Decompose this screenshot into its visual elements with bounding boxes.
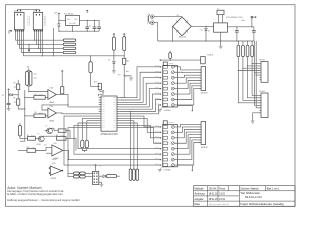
quartz capacitor C11 — [81, 140, 84, 148]
resistor R10 — [27, 149, 36, 153]
wire R2 to bus — [18, 105, 25, 109]
svg-text:U5 RL6: U5 RL6 — [259, 91, 265, 93]
bus line fuse F3 — [246, 45, 249, 57]
resistor R2 — [17, 95, 19, 99]
wire U1 to channel B1 — [119, 116, 159, 127]
wire to U5 pin 6 — [256, 75, 261, 108]
wire U1 to channel B2 — [119, 118, 159, 132]
opto channel B5 — [160, 148, 162, 149]
wire bus to U5 pin 1 — [252, 64, 261, 96]
opto channel B2 — [160, 132, 162, 133]
wire channel A3 to SV1 — [174, 75, 201, 78]
jumper J1 — [63, 39, 76, 41]
opto IC block A body — [163, 66, 178, 108]
connector X3 — [201, 57, 206, 64]
wire channel B5 to SV2 — [174, 135, 201, 149]
node via circle — [28, 44, 30, 49]
capacitor C10 — [18, 125, 21, 136]
opto channel A2 — [160, 72, 162, 73]
capacitor C4 — [89, 62, 92, 73]
svg-text:K2: K2 — [33, 11, 35, 13]
transistor T2 — [47, 128, 53, 134]
connector SV1 — [201, 67, 206, 91]
jumper J3 — [63, 47, 76, 49]
resistor R3 — [34, 96, 45, 100]
svg-text:R9: R9 — [35, 112, 37, 114]
long vertical node wire — [24, 90, 26, 116]
svg-text:+: + — [250, 29, 251, 31]
wire bus to U5 pin 3 — [243, 68, 261, 100]
svg-text:R8: R8 — [56, 135, 58, 137]
diode D7 — [99, 175, 103, 177]
resistor R6 — [123, 37, 126, 51]
wire U1 to channel A2 — [119, 72, 159, 100]
wire U1 to bus row5 — [74, 125, 160, 154]
wire row — [20, 137, 28, 139]
wire U1 to channel B3 — [119, 125, 159, 138]
svg-text:R1: R1 — [14, 82, 16, 84]
opto channel B3 — [160, 137, 162, 138]
svg-text:18.01.15: 18.01.15 — [209, 194, 219, 196]
svg-text:ULN2803: ULN2803 — [164, 170, 171, 172]
wire rail 141 — [20, 140, 22, 142]
connector SV2 — [201, 122, 206, 145]
opto channel B7 — [160, 159, 162, 160]
opto channel A4 — [160, 83, 162, 84]
block B aux pin — [177, 165, 192, 170]
svg-text:MC3E-W: MC3E-W — [201, 147, 208, 149]
svg-text:KL3E-W: KL3E-W — [207, 55, 213, 57]
relay coil top pads and wire — [17, 10, 18, 12]
op-amp IC3B — [48, 108, 57, 118]
svg-text:Maßstab: Maßstab — [195, 188, 205, 191]
svg-text:T1: T1 — [38, 133, 40, 135]
opto channel A7 — [160, 99, 162, 100]
bus line fuse F1 — [237, 45, 240, 57]
wire to U5 pin 5 — [255, 73, 261, 106]
microcontroller U1 ATmega8 — [101, 96, 117, 131]
svg-text:R2: R2 — [14, 97, 16, 99]
resistor R11b — [80, 172, 86, 175]
wire IC3B out to U1 — [56, 112, 98, 115]
capacitor C6 pair — [26, 71, 29, 85]
diode D1 — [58, 16, 60, 24]
svg-text:Zeichner: Martsch: Zeichner: Martsch — [240, 188, 259, 191]
connector U5 — [261, 93, 268, 118]
wire IC2 output rail — [228, 26, 254, 28]
wire U1 to channel A1 — [119, 67, 159, 98]
resistor R5 — [112, 37, 115, 50]
svg-text:R7: R7 — [27, 135, 29, 137]
svg-text:ULN2803: ULN2803 — [164, 110, 171, 112]
wire R8 to down — [66, 138, 76, 150]
relay K1 — [14, 12, 24, 29]
wire IC3A out to IC3B — [42, 94, 68, 110]
capacitor C3a — [98, 20, 100, 27]
wire channel A1 to SV1 — [174, 67, 201, 70]
svg-text:B80C1500: B80C1500 — [179, 36, 186, 38]
bus line fuse F2 — [242, 45, 245, 57]
wire channel A2 to SV1 — [174, 71, 201, 73]
svg-text:IC2 LM2940 CT5.0: IC2 LM2940 CT5.0 — [226, 17, 244, 19]
svg-text:13:34: 13:34 — [219, 199, 225, 201]
svg-text:+: + — [233, 29, 234, 31]
connector U4 — [261, 62, 268, 83]
wire to U4 pin 5 — [255, 41, 260, 73]
svg-text:Änderung: Änderung — [195, 193, 206, 196]
wire U1 to bus row4 — [78, 123, 160, 149]
wire channel B1 to SV2 — [174, 124, 201, 127]
transistor T1 — [38, 136, 44, 142]
svg-text:D5: D5 — [208, 30, 210, 32]
resistor R7 — [27, 137, 35, 141]
wire U1 to bus row6 — [68, 128, 160, 160]
wire channel B6 to SV2 — [174, 137, 201, 154]
wire channel A4 to SV1 — [174, 78, 201, 83]
resistor R20 — [169, 53, 172, 59]
wire bus to U5 pin 4 — [238, 71, 261, 103]
wire X3 input — [160, 60, 162, 61]
opto IC block B body — [163, 124, 178, 166]
resistor R14 — [58, 129, 66, 132]
wire U1 to channel A3 — [119, 78, 159, 103]
svg-text:C7: C7 — [217, 9, 219, 11]
svg-text:+5: +5 — [100, 166, 102, 168]
quartz capacitor C12 — [85, 140, 88, 148]
resistor array RN1 — [163, 62, 167, 66]
svg-text:BC547: BC547 — [37, 144, 42, 146]
opto channel A8 — [160, 104, 162, 105]
capacitor C8 — [236, 27, 238, 31]
svg-text:C1: C1 — [89, 25, 91, 27]
opto channel B1 — [160, 126, 162, 127]
svg-text:LM358: LM358 — [49, 102, 54, 104]
opto channel B8 — [160, 165, 162, 166]
ground block B — [158, 169, 162, 171]
title block — [194, 186, 296, 207]
net label +5V arrow — [86, 10, 88, 13]
svg-text:ATMEGA8-16PC: ATMEGA8-16PC — [101, 133, 119, 136]
wire analog rail to U1 — [21, 116, 24, 141]
wire channel A8 to SV1 — [174, 88, 201, 105]
wire relay contacts to jumper J1 — [16, 32, 64, 41]
wire U1 to channel B4 — [119, 128, 159, 144]
wire relay contacts to jumper J4 — [22, 32, 64, 53]
wire C4 to R13 — [91, 73, 100, 87]
relay K1 bottom pin pads — [15, 30, 16, 32]
resistor R9 — [34, 114, 45, 118]
svg-text:LM358: LM358 — [49, 121, 54, 123]
node via to U1 reset — [100, 90, 102, 92]
wire U1 to quartz cap C11 — [82, 118, 98, 140]
opto channel B6 — [160, 154, 162, 155]
ground block A — [158, 109, 162, 111]
svg-text:R10: R10 — [27, 147, 30, 149]
bridge rectifier B1 — [173, 17, 192, 36]
wire X1 to bridge AC1 — [154, 16, 182, 18]
bus line fuse F4 — [251, 45, 254, 57]
relay K2 — [33, 12, 42, 29]
svg-text:Projekt: S8-Rückmeldedecoder (: Projekt: S8-Rückmeldedecoder (zweiteilig… — [240, 203, 284, 206]
diode D5 — [205, 26, 207, 28]
svg-text:LM358: LM358 — [51, 178, 56, 180]
opto channel A1 — [160, 66, 162, 67]
ground rail — [158, 40, 254, 42]
wire bridge AC2 — [171, 26, 173, 41]
capacitor C5 to ground — [8, 95, 10, 104]
jumper J2 — [63, 43, 76, 45]
svg-text:100.0%: 100.0% — [209, 189, 217, 191]
net +UB stub analog — [8, 89, 10, 92]
diode D6 — [113, 61, 116, 63]
ground D6 — [112, 70, 116, 72]
svg-text:s88_busmodul_v30.sch: s88_busmodul_v30.sch — [209, 204, 229, 206]
wire bus to U4 pin 1 — [252, 57, 259, 64]
svg-text:K1: K1 — [14, 11, 16, 13]
net +5V arrow ISP — [95, 167, 97, 171]
svg-text:Blatt 1 von 1: Blatt 1 von 1 — [267, 188, 280, 191]
wire channel B3 to SV2 — [174, 130, 201, 138]
wire supply rail — [59, 30, 99, 32]
resistor R15 — [106, 175, 116, 178]
wire U1 to channel A5 — [119, 89, 159, 107]
svg-text:U4 RL6: U4 RL6 — [259, 60, 265, 62]
wire U1 to channel A8 — [119, 105, 159, 114]
svg-text:+UB: +UB — [26, 67, 29, 69]
wire bus to U4 pin 2 — [248, 57, 260, 66]
opto channel B4 — [160, 143, 162, 144]
wire bridge to IC2 — [191, 25, 213, 27]
wire ISP to bus — [67, 160, 69, 174]
wire relay common to C3 — [23, 32, 124, 56]
wire U1 to channel A7 — [119, 100, 159, 112]
svg-text:IC3B: IC3B — [49, 106, 52, 108]
resistor R8 — [57, 137, 66, 141]
wire to U4 pin 6 — [256, 41, 259, 75]
svg-text:100n: 100n — [126, 71, 129, 73]
resistor R11a — [74, 172, 80, 175]
wire IC3C out — [63, 150, 69, 160]
net label +UB arrow — [58, 13, 60, 16]
wire channel A7 to SV1 — [174, 86, 201, 100]
svg-text:LM358: LM358 — [52, 159, 57, 161]
resistor array RN2 — [163, 121, 167, 125]
vertical net labels between relays — [27, 16, 29, 25]
relay K2 bottom pin pads — [34, 30, 35, 32]
svg-text:Titel: S8-Busmodul: Titel: S8-Busmodul — [240, 192, 260, 195]
block A aux pin — [177, 106, 192, 111]
capacitor bank C15 — [136, 169, 139, 180]
wire bus to U5 pin 2 — [248, 66, 262, 98]
svg-text:Ausgabe: Ausgabe — [195, 198, 205, 201]
svg-text:Datei: Datei — [195, 203, 201, 206]
drawing frame border — [6, 5, 296, 207]
wire U1 to bus row7 — [64, 116, 160, 165]
svg-text:RS-8-N-LC-V3.0: RS-8-N-LC-V3.0 — [245, 197, 263, 199]
svg-text:13:02: 13:02 — [219, 194, 225, 196]
op-amp IC3C — [52, 145, 63, 156]
wire bus to U4 pin 3 — [243, 57, 260, 68]
capacitor C1 — [86, 20, 88, 27]
capacitor C9 — [253, 27, 255, 31]
relay K1 left pin pad — [10, 30, 11, 32]
wire bus to U4 pin 4 — [238, 57, 259, 71]
wire to op-amp input plus — [29, 91, 48, 93]
svg-text:+UB: +UB — [54, 13, 57, 15]
resistor R16 — [123, 58, 126, 64]
ISP header SV3 — [93, 171, 99, 184]
wire channel B8 to SV2 — [174, 143, 201, 166]
capacitor block C7 — [217, 10, 224, 15]
svg-text:D3: D3 — [108, 60, 110, 62]
terminal X1 — [148, 14, 149, 24]
svg-text:R3: R3 — [35, 94, 37, 96]
ground ISP — [99, 182, 102, 184]
wire X1 to minus rail — [154, 23, 158, 41]
resistor R13 — [98, 83, 101, 89]
capacitor C2 — [94, 20, 96, 27]
regulator IC1 78L05 — [66, 15, 80, 25]
opto channel A5 — [160, 88, 162, 89]
jumper J4 — [63, 51, 76, 53]
net +UB arrow 2 — [61, 70, 63, 73]
resistor R12a — [74, 175, 80, 178]
svg-text:B1: B1 — [177, 15, 179, 17]
wire relay contacts to jumper J2 — [18, 32, 64, 45]
svg-text:R13: R13 — [94, 82, 97, 84]
wire channel B2 to SV2 — [174, 127, 201, 132]
wire R16 to U1 — [119, 64, 124, 97]
svg-text:IC1 78L05: IC1 78L05 — [64, 14, 74, 16]
wire U1 to channel A4 — [119, 83, 159, 104]
wire caps to U1 pins — [130, 112, 132, 170]
wire node to U1 pin — [68, 105, 99, 107]
wire channel B4 to SV2 — [174, 132, 201, 143]
opto channel A6 — [160, 94, 162, 95]
net +5V node — [251, 18, 253, 27]
opto channel A3 — [160, 77, 162, 78]
svg-text:R16: R16 — [126, 61, 129, 63]
wire channel B7 to SV2 — [174, 140, 201, 160]
resistor R1 — [17, 84, 20, 90]
svg-text:MC3E-W: MC3E-W — [201, 93, 208, 95]
wire channel A5 to SV1 — [174, 81, 201, 89]
svg-text:D2: D2 — [2, 95, 4, 97]
wire U5 to ground — [253, 113, 261, 121]
IC2 ground pin and ground — [220, 32, 222, 46]
regulator IC2 LM2940 — [214, 23, 228, 32]
svg-text:Firma: Firma — [219, 188, 226, 191]
wire U1 to channel A6 — [119, 94, 159, 109]
resistor R4 feedback to +UB — [56, 93, 62, 95]
op-amp IC3D — [50, 166, 61, 175]
svg-text:T2: T2 — [46, 126, 48, 128]
capacitor bank C13 — [129, 169, 132, 180]
wire U1 to quartz cap C12 — [87, 121, 99, 141]
svg-text:18.01.15: 18.01.15 — [209, 199, 219, 201]
resistor R12b — [80, 175, 86, 178]
wire channel A6 to SV1 — [174, 83, 201, 94]
wire relay contacts to jumper J3 — [20, 32, 64, 49]
svg-text:E-Mail: norbert.martsch(a)goog: E-Mail: norbert.martsch(a)googlemail.com — [7, 192, 63, 196]
capacitor bank C14 — [133, 169, 136, 180]
diode D2 — [8, 94, 9, 95]
svg-text:Haftung ausgeschlossen: - Verw: Haftung ausgeschlossen: - Verwendung auf… — [7, 198, 80, 202]
svg-text:C10: C10 — [200, 30, 203, 32]
op-amp IC3A — [48, 90, 57, 100]
